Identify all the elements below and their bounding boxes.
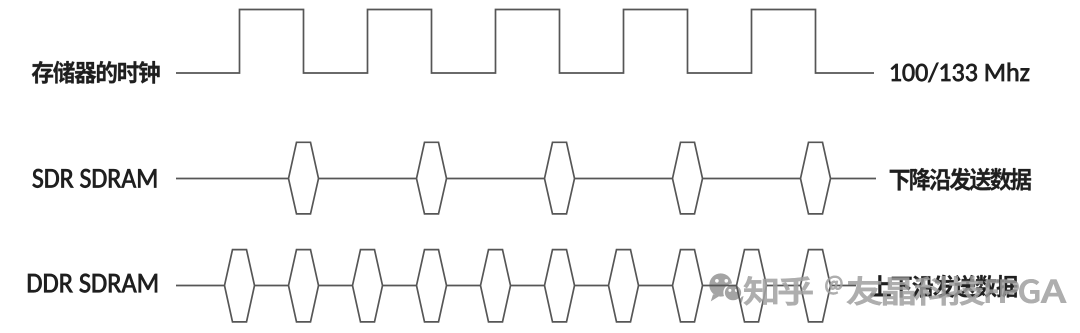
- clock waveform 存储器的时钟: [176, 10, 874, 74]
- SDR data symbol D3: [673, 142, 703, 214]
- watermark translucent overlay: [744, 276, 1066, 305]
- DDR data symbol E5: [545, 250, 575, 322]
- label DDR SDRAM: [28, 274, 157, 293]
- DDR data symbol E4: [481, 250, 511, 322]
- DDR data symbol E3: [417, 250, 447, 322]
- DDR data symbol E9: [801, 250, 831, 322]
- DDR data symbol E7: [673, 250, 703, 322]
- SDR data line (wire): [176, 178, 876, 180]
- watermark wechat icon: [709, 273, 743, 303]
- SDR data symbol D4: [801, 142, 831, 214]
- label 下降沿发送数据: [890, 168, 1031, 191]
- label SDR SDRAM: [33, 169, 157, 188]
- DDR data symbol E0: [225, 250, 255, 322]
- watermark text 知乎 @友晶科技FPGA: [744, 276, 1066, 305]
- label 上下沿发送数据: [871, 275, 1018, 298]
- DDR data symbol E6: [609, 250, 639, 322]
- label 100/133 Mhz: [891, 63, 1029, 82]
- DDR data symbol E2: [353, 250, 383, 322]
- label 存储器的时钟: [32, 61, 160, 84]
- SDR data symbol D1: [417, 142, 447, 214]
- DDR data line (wire): [176, 285, 856, 287]
- SDR data symbol D0: [289, 142, 319, 214]
- SDR data symbol D2: [545, 142, 575, 214]
- DDR data symbol E1: [289, 250, 319, 322]
- DDR data symbol E8: [737, 250, 767, 322]
